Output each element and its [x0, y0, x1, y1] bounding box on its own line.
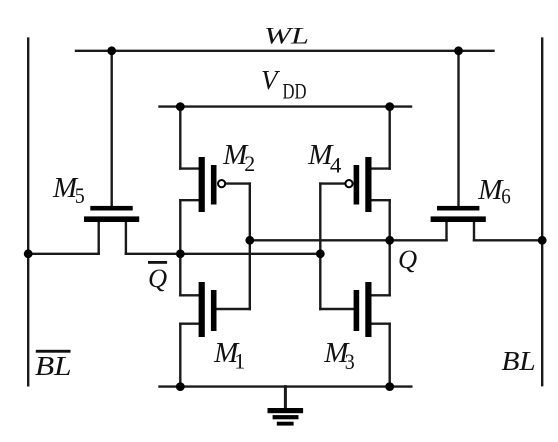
- svg-text:BL: BL: [502, 346, 536, 376]
- svg-text:3: 3: [345, 349, 355, 374]
- svg-text:Q: Q: [148, 263, 167, 293]
- svg-text:6: 6: [501, 184, 511, 209]
- svg-text:2: 2: [244, 151, 255, 176]
- svg-text:Q: Q: [398, 244, 417, 274]
- svg-text:M: M: [477, 174, 504, 206]
- svg-text:DD: DD: [283, 79, 307, 104]
- svg-text:1: 1: [234, 348, 245, 373]
- svg-text:5: 5: [75, 183, 85, 208]
- svg-text:BL: BL: [35, 351, 72, 381]
- svg-text:WL: WL: [264, 24, 309, 50]
- svg-text:4: 4: [330, 152, 342, 177]
